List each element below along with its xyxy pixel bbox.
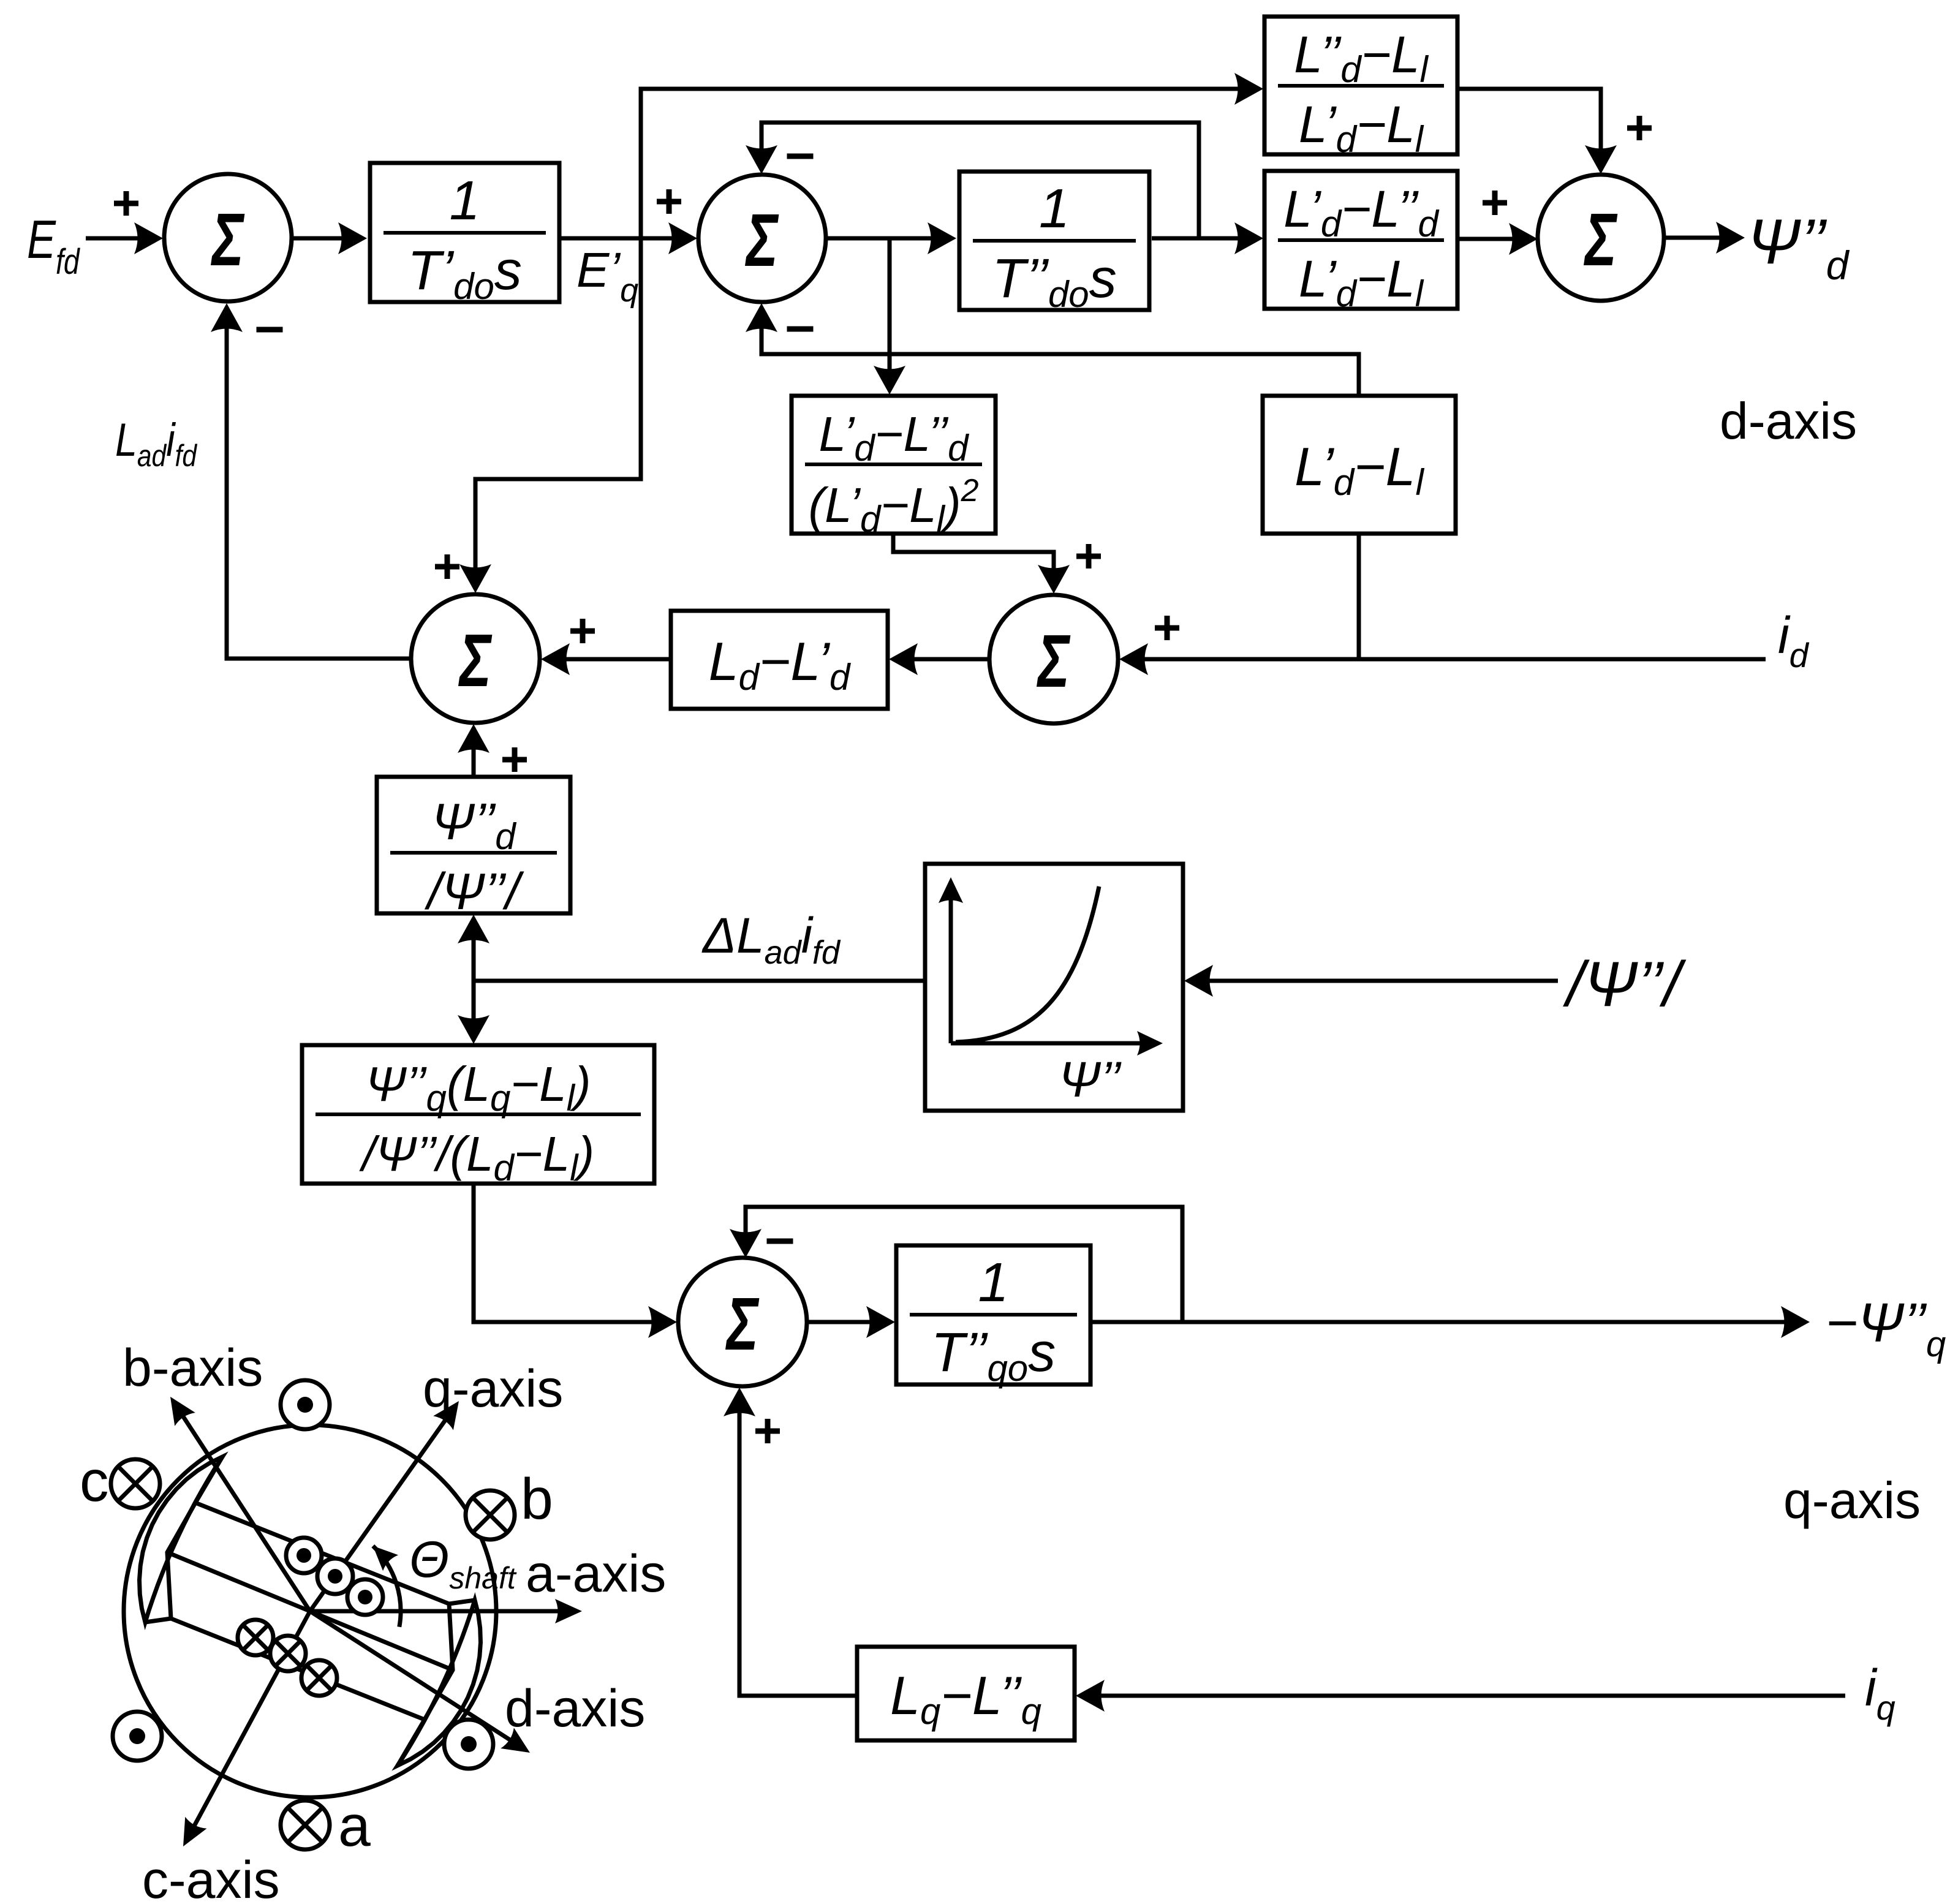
svg-text:a-axis: a-axis xyxy=(526,1544,666,1603)
wire sq-block to S5 xyxy=(893,534,1070,594)
wire id junction up into L'd-Ll block xyxy=(1357,534,1361,659)
minus sign at S2 top xyxy=(787,154,814,159)
wire E'q branch up to L''d-Ll block xyxy=(641,73,1263,238)
stator slot c in (left cross) xyxy=(111,1459,160,1508)
plus sign at S4 left xyxy=(1483,191,1507,215)
wire Ld-L'd block to S3 xyxy=(541,643,671,675)
svg-text:Σ: Σ xyxy=(458,619,493,702)
svg-text:b-axis: b-axis xyxy=(123,1339,263,1397)
summing junction S6 (q-axis adder) xyxy=(678,1258,807,1386)
summing junction S1 (Efd - Ladifd) xyxy=(164,174,292,301)
svg-text:Σ: Σ xyxy=(1584,198,1618,281)
label delta Lad ifd xyxy=(701,908,841,971)
svg-text:Σ: Σ xyxy=(1037,619,1071,703)
plus sign at S6 bottom xyxy=(755,1419,780,1443)
label phase b marker xyxy=(521,1467,553,1532)
svg-text:/Ψ’’/(Ld−Ll): /Ψ’’/(Ld−Ll) xyxy=(359,1127,594,1188)
label Ladifd xyxy=(115,414,198,473)
svg-text:L’d−Ll: L’d−Ll xyxy=(1299,250,1424,314)
wire S3 to S1 (Ladifd) xyxy=(211,303,411,659)
stator slot a out (top dot) xyxy=(281,1380,330,1429)
stator slot b out (lower-left dot) xyxy=(113,1712,162,1761)
rotor pole shoe crescent lower-right xyxy=(398,1600,481,1766)
b-axis arrow xyxy=(160,1390,310,1611)
theta shaft arc arrow xyxy=(365,1538,401,1627)
summing junction S5 (id adder) xyxy=(989,595,1118,723)
wire Lq-L''q to S6 bottom xyxy=(724,1388,857,1696)
wire (L'd-L''d)/(L'd-Ll) to S4 xyxy=(1457,223,1538,255)
label id input xyxy=(1778,606,1810,674)
svg-text:a: a xyxy=(338,1794,371,1859)
block 1/(T''qo s) xyxy=(896,1245,1090,1389)
svg-text:/Ψ’’/: /Ψ’’/ xyxy=(1563,949,1687,1020)
label Efd xyxy=(27,209,80,282)
rotor notch line lower-right xyxy=(398,1720,425,1766)
plus sign at S3 top xyxy=(435,554,459,579)
svg-text:Σ: Σ xyxy=(725,1282,760,1366)
svg-text:q-axis: q-axis xyxy=(423,1359,563,1418)
label phase a marker xyxy=(338,1794,371,1859)
svg-text:L’d−L’’d: L’d−L’’d xyxy=(1283,180,1439,244)
label q-axis (machine) xyxy=(423,1359,563,1418)
minus sign at S1 bottom xyxy=(257,327,283,333)
field winding dots cluster xyxy=(286,1538,383,1615)
svg-text:/Ψ’’/: /Ψ’’/ xyxy=(425,863,524,920)
block (L'd-L''d)/(L'd-Ll) xyxy=(1264,171,1457,314)
stator slot b in (right cross) xyxy=(466,1490,515,1539)
stator slot c out (lower-right dot) xyxy=(444,1720,493,1769)
q-axis arrow xyxy=(310,1394,469,1611)
summing junction S2 (E'q integrator input) xyxy=(698,175,826,302)
svg-text:1: 1 xyxy=(1039,178,1070,240)
label psi''d output xyxy=(1747,206,1850,288)
wire S5 to Ld-L'd block xyxy=(889,643,989,675)
svg-text:Ψ’’: Ψ’’ xyxy=(1059,1052,1122,1108)
summing junction S4 (psi''d output adder) xyxy=(1538,175,1664,301)
svg-text:L’d−L’’d: L’d−L’’d xyxy=(819,407,970,469)
rotor notch line upper-right xyxy=(449,1600,475,1604)
plus sign at S4 top xyxy=(1627,116,1652,140)
svg-text:d-axis: d-axis xyxy=(1720,392,1857,450)
svg-text:d-axis: d-axis xyxy=(505,1679,645,1738)
wire id input xyxy=(1119,643,1766,675)
stator slot a in (bottom cross) xyxy=(281,1800,330,1849)
svg-text:c-axis: c-axis xyxy=(142,1851,280,1904)
stator circle xyxy=(124,1425,496,1797)
svg-text:c: c xyxy=(80,1449,109,1514)
wire S6 to 1/T''qos xyxy=(807,1306,895,1338)
block Ld-L'd xyxy=(671,611,888,709)
label b-axis xyxy=(123,1339,263,1397)
label phase c marker xyxy=(80,1449,109,1514)
svg-text:Σ: Σ xyxy=(211,198,245,281)
label a-axis xyxy=(526,1544,666,1603)
block 1/(T'do s) xyxy=(370,163,559,307)
wire psi''q block to S6 xyxy=(474,1184,677,1338)
plus sign at S5 top xyxy=(1076,544,1101,569)
block L'd-Ll xyxy=(1263,396,1456,534)
minus sign at S6 top xyxy=(767,1239,793,1244)
wire S2 to 1/T''dos xyxy=(826,222,956,254)
svg-text:b: b xyxy=(521,1467,553,1532)
wire psi''d/|psi''| block to S3 xyxy=(458,724,489,777)
plus sign at S3 right xyxy=(570,619,595,643)
label c-axis xyxy=(142,1851,280,1904)
plus sign at S3 bottom xyxy=(502,747,527,772)
wire q-axis feedback loop xyxy=(730,1207,1182,1322)
wire feedback T''do loop xyxy=(746,123,1199,238)
wire iq input xyxy=(1076,1680,1845,1712)
rotor pole shoe crescent upper-left xyxy=(140,1457,223,1622)
label -psi''q output xyxy=(1826,1293,1946,1364)
wire E'q branch down to S3 xyxy=(459,238,641,593)
block (L'd-L''d)/(L'd-Ll)^2 xyxy=(792,396,996,540)
wire junction to saturation block xyxy=(474,979,925,983)
label |psi''| input xyxy=(1563,949,1687,1020)
svg-text:(L’d−Ll)2: (L’d−Ll)2 xyxy=(809,473,979,540)
summing junction S3 (Ladifd adder) xyxy=(411,594,540,723)
wire S4 to psi''d output xyxy=(1664,222,1745,254)
label E'q xyxy=(576,243,638,309)
svg-text:Σ: Σ xyxy=(745,198,779,282)
label iq input xyxy=(1865,1659,1895,1727)
svg-text:q-axis: q-axis xyxy=(1783,1471,1921,1529)
svg-text:L’d−Ll: L’d−Ll xyxy=(1294,436,1424,503)
c-axis arrow xyxy=(172,1611,310,1852)
wire |psi''| input to saturation block xyxy=(1184,965,1558,997)
d-axis arrow xyxy=(310,1611,537,1763)
label d-axis (machine) xyxy=(505,1679,645,1738)
svg-text:L’d−Ll: L’d−Ll xyxy=(1299,96,1424,160)
minus sign at S2 bottom xyxy=(787,327,814,332)
block psi''q(Lq-Ll) / |psi''|(Ld-Ll) xyxy=(302,1045,654,1188)
a-axis arrow xyxy=(310,1599,582,1623)
label q-axis xyxy=(1783,1471,1921,1529)
wire S1 to 1/T'dos xyxy=(292,222,367,254)
wire junction down to (L'd-L''d)/(L'd-Ll)^2 block xyxy=(874,238,905,395)
plus sign at S2 input xyxy=(657,189,681,214)
block psi''d / |psi''| xyxy=(377,777,570,920)
wire L''d-Ll block to S4 xyxy=(1457,89,1617,174)
wire double arrow between ratio blocks xyxy=(458,915,489,1044)
rotor notch line upper-left xyxy=(195,1457,222,1503)
wire 1/T'dos to S2 (E'q) xyxy=(560,222,697,254)
svg-text:1: 1 xyxy=(449,170,480,232)
block (L''d-Ll)/(L'd-Ll) xyxy=(1264,17,1457,160)
field winding crosses cluster xyxy=(238,1620,337,1696)
svg-text:Lq−L’’q: Lq−L’’q xyxy=(890,1665,1041,1732)
svg-text:1: 1 xyxy=(978,1252,1008,1313)
label theta shaft xyxy=(409,1530,517,1595)
saturation function block Sat(psi'') xyxy=(925,864,1183,1111)
plus sign at S5 right xyxy=(1155,616,1179,640)
wire 1/T''dos to (L'd-L''d)/(L'd-Ll) block xyxy=(1152,222,1263,254)
block Lq-L''q xyxy=(857,1647,1075,1740)
plus sign at S1 input xyxy=(114,191,138,216)
label d-axis xyxy=(1720,392,1857,450)
wire L'd-Ll top to S2 bottom (minus) xyxy=(746,303,1359,396)
svg-text:L’’d−Ll: L’’d−Ll xyxy=(1294,26,1429,90)
svg-text:Ψ’’q(Lq−Ll): Ψ’’q(Lq−Ll) xyxy=(365,1057,591,1119)
rotor bar mid line xyxy=(167,1552,453,1670)
rotor pole bar body xyxy=(167,1503,453,1720)
wire Efd input xyxy=(86,222,163,254)
wire 1/T''qos to -psi''q output xyxy=(1090,1306,1810,1338)
block 1/(T''do s) xyxy=(959,172,1149,315)
rotor notch line lower-left xyxy=(145,1619,171,1622)
